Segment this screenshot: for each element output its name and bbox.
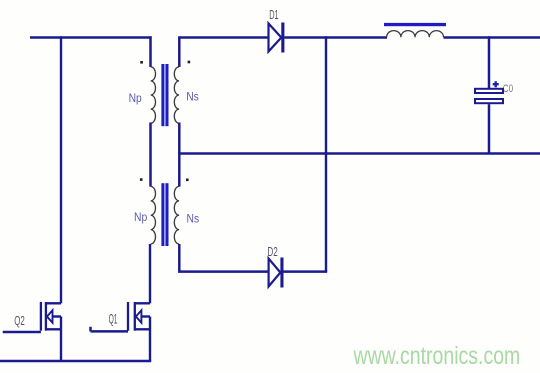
wire junction vertical D1/D2 cathode bus xyxy=(325,36,327,271)
D2 triangle xyxy=(269,259,281,287)
wire C0 bottom lead xyxy=(488,104,491,154)
svg-text:www.cntronics.com: www.cntronics.com xyxy=(353,342,521,370)
Q2 arrow lead xyxy=(53,315,62,317)
T2 phase dot secondary xyxy=(186,179,189,182)
Q1 gate bar xyxy=(127,302,129,331)
diode D1 xyxy=(269,8,285,53)
D1 triangle xyxy=(269,24,282,52)
D1 cathode bar xyxy=(281,23,284,53)
Q1 gate lead xyxy=(91,327,129,332)
transformer T1 xyxy=(129,36,200,186)
inductor L winding arcs xyxy=(387,31,444,38)
Q2 source lead xyxy=(46,328,61,330)
T2 core bars xyxy=(161,183,168,246)
wire T1 secondary bottom to T2 secondary top xyxy=(178,123,181,187)
transistor Q1 xyxy=(91,302,151,361)
T1 phase dot primary xyxy=(140,61,143,64)
Q1 source lead xyxy=(135,328,150,330)
wire D2 cathode to junction vertical xyxy=(284,270,328,273)
transistor Q2 xyxy=(3,302,61,361)
wire bottom ground rail xyxy=(0,360,151,363)
C0 bottom plate xyxy=(475,99,503,103)
wire D1 anode from T1 secondary xyxy=(179,36,267,39)
wire T2 secondary bottom down to D2 anode rail xyxy=(178,244,268,272)
svg-text:C0: C0 xyxy=(503,83,513,95)
C0 top plate xyxy=(475,89,503,93)
transformer T2 xyxy=(134,178,268,303)
T1 phase dot secondary xyxy=(188,61,191,64)
svg-text:Q2: Q2 xyxy=(14,314,25,328)
Q1 drain lead xyxy=(135,302,150,304)
svg-text:Ns: Ns xyxy=(186,91,199,104)
Q1 body arrow xyxy=(136,310,142,322)
svg-text:Np: Np xyxy=(134,211,147,224)
wire middle output return rail xyxy=(178,152,540,155)
wire top-left input rail xyxy=(30,36,152,39)
Q2 channel bar xyxy=(45,302,47,331)
Q2 gate lead xyxy=(3,331,41,334)
T2 phase dot primary xyxy=(140,178,143,181)
Q2 drain lead xyxy=(46,302,61,304)
wire T1 primary bottom to T2 primary top xyxy=(149,123,152,187)
wire D1 cathode to inductor xyxy=(284,36,387,39)
Q2 gate bar xyxy=(40,302,42,331)
T1 secondary winding arcs xyxy=(174,67,179,123)
wire inductor to output right edge xyxy=(444,36,540,39)
T1 primary winding arcs xyxy=(151,67,156,123)
svg-text:Q1: Q1 xyxy=(109,312,118,327)
wire C0 top lead xyxy=(488,36,491,88)
wire Q1 source down to ground rail xyxy=(149,317,151,362)
inductor L core bar xyxy=(384,23,446,26)
Q1 arrow lead xyxy=(141,315,150,317)
Q1 channel bar xyxy=(134,302,136,331)
wire Q2 source down to ground rail xyxy=(60,317,62,362)
svg-text:Np: Np xyxy=(129,92,142,105)
T1 core bars xyxy=(161,64,168,126)
svg-text:Ns: Ns xyxy=(187,213,200,226)
diode D2 xyxy=(267,245,283,287)
capacitor C0 xyxy=(475,36,513,154)
wire T2 primary bottom to Q1 drain xyxy=(149,244,151,303)
T2 secondary winding arcs xyxy=(174,186,179,244)
wire T1 primary top stub xyxy=(149,36,152,67)
D2 cathode bar xyxy=(280,258,283,288)
Q2 body arrow xyxy=(47,310,53,322)
wire T1 secondary top stub xyxy=(178,36,181,67)
T2 primary winding arcs xyxy=(151,186,156,244)
wire left rail vertical to Q2 drain xyxy=(60,36,62,303)
svg-text:D2: D2 xyxy=(267,245,277,259)
svg-text:D1: D1 xyxy=(269,8,279,23)
C0 plus sign xyxy=(493,81,499,87)
